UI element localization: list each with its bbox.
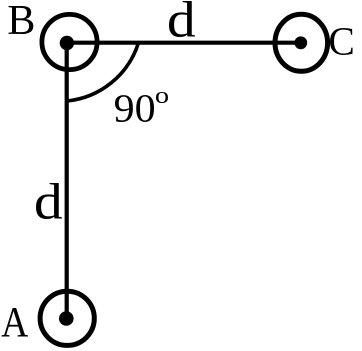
angle arc 90 degrees at node B	[67, 43, 139, 101]
label A	[2, 308, 29, 337]
node C charge circle	[275, 14, 328, 71]
node A dot	[59, 311, 74, 326]
node A charge circle	[40, 291, 94, 345]
label B	[9, 6, 34, 34]
label d (top, distance B-C)	[169, 1, 195, 37]
label d (left, distance B-A)	[36, 183, 62, 219]
node C dot	[294, 36, 307, 49]
label C	[330, 28, 353, 55]
label 90	[115, 95, 154, 122]
node B charge circle	[42, 14, 97, 69]
wire B-C (horizontal segment, length d)	[67, 41, 301, 45]
wire B-A (vertical segment, length d)	[65, 43, 69, 318]
label superscript o (degrees)	[156, 92, 168, 103]
node B dot	[60, 36, 74, 50]
